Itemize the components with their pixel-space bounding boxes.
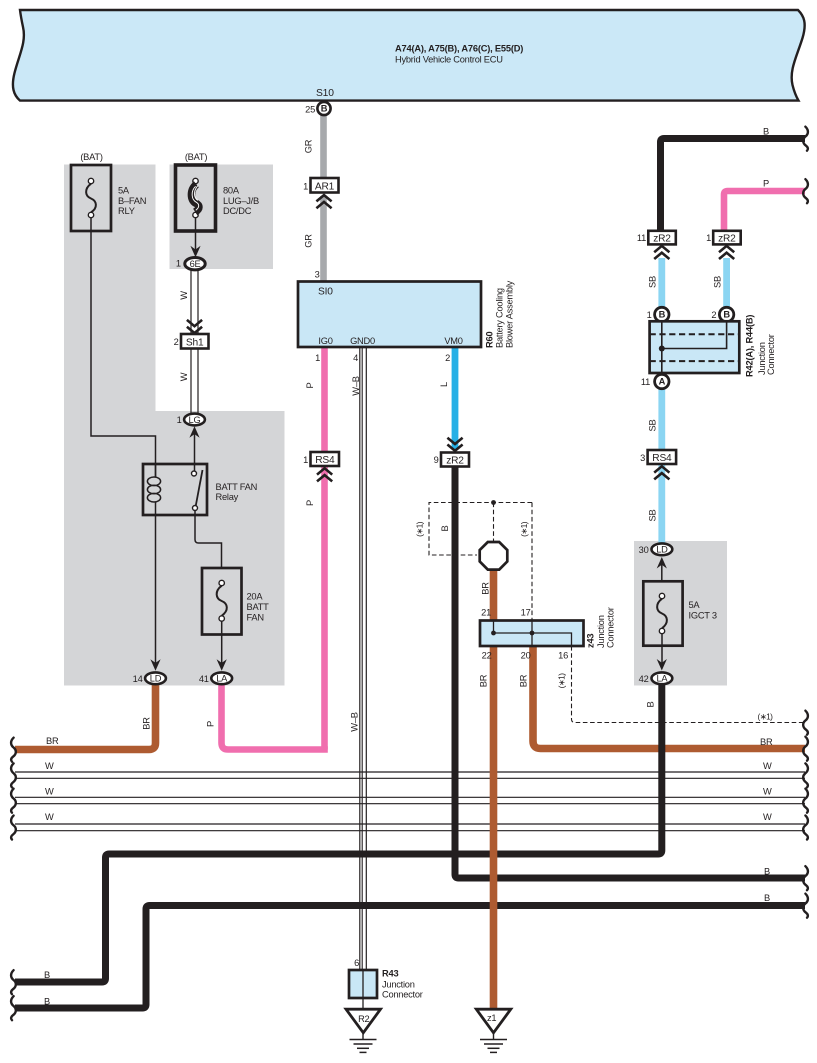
connector chevron above zR2 pin 9 [447,438,462,451]
svg-text:(∗1): (∗1) [758,712,774,722]
svg-text:Relay: Relay [216,492,239,502]
relay switch [192,470,203,511]
svg-text:P: P [763,179,769,189]
svg-text:21: 21 [481,608,491,618]
ground z1 [476,1009,511,1052]
svg-text:BATT: BATT [247,602,270,612]
dashed (*1) box around wire B of zR2 pin 9 [429,503,532,621]
connector LD pin 30 [639,543,673,555]
svg-text:zR2: zR2 [653,234,671,245]
svg-text:3: 3 [640,453,645,463]
shaded fuse block right (IGCT 3) [634,541,727,686]
junction connector z43 [480,621,584,647]
svg-text:Junction: Junction [382,980,415,990]
svg-text:W: W [763,812,772,822]
svg-text:B–FAN: B–FAN [118,196,146,206]
svg-text:P: P [305,500,315,506]
svg-text:IG0: IG0 [318,336,332,346]
connector AR1 pin 1 [303,178,338,193]
svg-text:P: P [305,382,315,388]
connector zR2 pin 11 [637,231,676,245]
svg-text:GR: GR [304,139,314,153]
svg-text:B: B [646,701,656,707]
svg-text:BR: BR [479,674,489,687]
connector zR2 pin 9 [434,453,469,467]
connector LG pin 1 [177,414,205,426]
fuse 80A LUG-J/B DC/DC [176,165,216,231]
wire GR from AR1 to R60 pin 3 [320,196,327,283]
torn wire marks right edge [803,127,808,918]
svg-text:1: 1 [177,415,182,425]
svg-text:1: 1 [315,353,320,363]
svg-text:(BAT): (BAT) [80,152,102,162]
svg-text:W–B: W–B [350,712,360,731]
R60 Battery Cooling Blower Assembly box [298,282,481,348]
svg-text:R2: R2 [358,1014,369,1024]
svg-text:(BAT): (BAT) [185,152,207,162]
svg-text:BR: BR [142,717,152,730]
wire B from zR2 pin 9 down and right to edge [455,466,805,878]
wire W horizontal pair 3 [15,824,805,831]
svg-text:B: B [44,970,50,980]
relay BATT FAN box [143,464,207,515]
svg-text:1: 1 [176,259,181,269]
wire SB from zR2 pin 11 to junction B pin 1 [658,258,665,310]
connector chevron below RS4 [317,468,332,481]
connector LD pin 14 [133,672,166,684]
svg-text:2: 2 [174,337,179,347]
connector chevron below RS4 pin 3 [654,466,669,479]
svg-text:B: B [764,867,770,877]
svg-text:B: B [440,525,450,531]
svg-text:DC/DC: DC/DC [223,206,252,216]
wire B top right from edge to zR2 pin 11 [661,139,806,232]
shaded relay/fuse block left [64,165,285,686]
Hybrid Vehicle Control ECU block A74 [13,10,805,101]
connector RS4 pin 1 [303,452,339,466]
svg-text:W: W [763,761,772,771]
svg-text:B: B [44,997,50,1007]
wire BR from z43 pin 22 to ground z1 [490,646,498,1010]
svg-text:25: 25 [305,105,315,115]
wire W from 6E to Sh1 [191,271,198,335]
wire W horizontal pair 2 [15,797,805,803]
svg-text:A: A [659,377,666,387]
wire W from Sh1 to LG [191,349,198,414]
svg-text:IGCT 3: IGCT 3 [689,611,717,621]
ground R2 [346,1009,381,1052]
svg-text:SB: SB [648,510,658,522]
svg-text:41: 41 [199,674,209,684]
octagon noise filter [480,542,508,570]
svg-text:Connector: Connector [382,990,423,1000]
wire SB from junction A pin 11 to RS4 pin 3 [658,389,665,453]
svg-text:20: 20 [521,651,531,661]
svg-text:LD: LD [150,674,162,684]
svg-text:zR2: zR2 [446,456,464,467]
connector A pin 11 of R42 [641,374,669,388]
svg-text:GR: GR [304,234,314,248]
svg-text:B: B [659,310,666,320]
wire B bottom from left edge up to right edge [15,906,805,1009]
junction connector R42(A) R44(B) [650,321,740,373]
svg-text:1: 1 [303,455,308,465]
connector 6E pin 1 [176,258,205,270]
svg-text:W: W [179,291,189,300]
svg-text:Battery Cooling: Battery Cooling [495,288,505,348]
connector B pin 2 of R42 [711,307,733,321]
svg-text:zR2: zR2 [718,234,736,245]
svg-text:SB: SB [648,420,658,432]
wire BR from relay block LD pin 14 to left edge [15,685,156,750]
svg-text:LA: LA [216,674,228,684]
connector LA pin 41 [199,672,232,684]
svg-text:W: W [763,787,772,797]
wire P from RS4 down [321,463,328,750]
svg-text:BATT FAN: BATT FAN [216,482,258,492]
svg-text:BR: BR [519,674,529,687]
connector Sh1 pin 2 [174,334,209,349]
svg-text:6E: 6E [190,259,201,269]
svg-text:z43: z43 [586,634,596,648]
svg-text:W: W [45,787,54,797]
wire relay to fuse 20A [195,511,222,569]
svg-text:LD: LD [656,545,668,555]
svg-text:6: 6 [354,958,359,968]
svg-text:30: 30 [639,545,649,555]
dashed (*1) wire from z43 pin 16 [572,646,806,723]
connector B pin 1 of R42 [647,307,669,321]
wire L from R60 VM0 pin 2 to zR2 pin 9 [452,347,459,449]
wire SB from RS4 to IGCT LD pin 30 [658,461,665,543]
torn wire marks left edge [11,738,16,1021]
junction connector R43 [349,970,377,1009]
svg-text:LUG–J/B: LUG–J/B [223,196,259,206]
svg-text:GND0: GND0 [350,336,375,346]
svg-text:R42(A), R44(B): R42(A), R44(B) [745,315,755,377]
svg-text:1: 1 [647,310,652,320]
svg-text:B: B [723,310,730,320]
fuse 20A BATT FAN [202,568,242,635]
svg-text:z1: z1 [487,1013,496,1023]
svg-text:(∗1): (∗1) [557,673,567,689]
connector chevron above Sh1 [187,320,202,333]
arrow into LD pin 14 [150,659,160,671]
svg-text:W–B: W–B [351,376,361,395]
svg-text:A74(A), A75(B), A76(C), E55(D): A74(A), A75(B), A76(C), E55(D) [395,44,523,54]
svg-text:(∗1): (∗1) [415,521,425,537]
arrow into LD pin 30 [657,557,667,569]
svg-text:B: B [763,127,769,137]
wire W-B from R60 GND0 pin 4 to R43 [360,347,367,970]
wire BR from octagon to z43 pin 21 [490,568,498,621]
svg-text:RS4: RS4 [652,453,672,464]
wire B from IGCT LA pin 42 down, left and to left edge [15,685,662,982]
svg-text:1: 1 [303,182,308,192]
svg-text:VM0: VM0 [444,336,462,346]
svg-text:2: 2 [445,353,450,363]
arrow into LA pin 42 [661,634,663,663]
svg-text:S10: S10 [316,88,334,99]
svg-text:LA: LA [656,674,668,684]
svg-text:Junction: Junction [596,615,606,648]
svg-text:80A: 80A [223,186,240,196]
svg-text:R60: R60 [485,332,495,348]
svg-text:RLY: RLY [118,206,135,216]
arrow into connector 6E [195,218,197,251]
connector chevron below zR2 pin 11 [654,246,669,259]
wire P from relay block LA pin 41 [222,685,328,750]
wire from fuse 5A to relay coil [91,218,156,478]
wire BR from z43 pin 20 to right edge [533,646,805,749]
svg-text:BR: BR [46,736,59,746]
wire SB from zR2 pin 1 to junction B pin 2 [723,258,730,310]
connector zR2 pin 1 [706,231,741,245]
arrow from relay into LG [189,426,199,438]
svg-text:BR: BR [760,737,773,747]
svg-text:B: B [321,104,328,114]
svg-text:FAN: FAN [247,612,264,622]
svg-text:20A: 20A [247,592,264,602]
svg-text:42: 42 [639,674,649,684]
svg-text:W: W [45,761,54,771]
junction dot on dashed line [491,500,496,505]
svg-text:14: 14 [133,674,143,684]
connector chevron below zR2 pin 1 [719,246,734,259]
svg-text:3: 3 [315,270,320,280]
svg-text:AR1: AR1 [315,181,335,192]
wire GR from ECU S10 pin 25 to AR1 [320,112,327,182]
svg-text:BR: BR [481,582,491,595]
connector LA pin 42 [639,672,673,684]
svg-text:5A: 5A [118,186,130,196]
svg-text:5A: 5A [689,600,701,610]
svg-text:W: W [45,812,54,822]
svg-text:W: W [179,372,189,381]
fuse IGCT 3 [643,581,682,645]
svg-text:Blower Assembly: Blower Assembly [505,280,515,348]
wire P top right from edge to zR2 pin 1 [724,191,805,232]
svg-text:11: 11 [641,377,650,387]
svg-text:R43: R43 [382,969,398,979]
svg-text:Hybrid Vehicle Control ECU: Hybrid Vehicle Control ECU [395,55,503,65]
wire relay coil to LD pin 14 [155,516,157,664]
svg-text:2: 2 [711,310,716,320]
svg-text:Sh1: Sh1 [186,337,204,348]
relay coil [147,464,160,516]
connector chevron below AR1 [316,195,331,208]
svg-text:SI0: SI0 [318,287,333,298]
connector B pin 25 at ECU [305,102,330,115]
wire W horizontal pair 1 [15,772,805,778]
shaded fuse block (80A LUG-J/B) [170,165,274,270]
connector RS4 pin 3 [640,450,676,464]
svg-text:RS4: RS4 [315,455,335,466]
wire fuse 20A to LA pin 41 [221,621,223,663]
svg-text:Connector: Connector [606,607,616,648]
svg-text:1: 1 [706,233,711,243]
svg-text:11: 11 [637,233,646,243]
svg-text:SB: SB [648,276,658,288]
svg-text:Connector: Connector [766,334,776,375]
wire P from R60 IG0 pin 1 to RS4 [321,347,328,455]
svg-text:9: 9 [434,455,439,465]
svg-text:17: 17 [521,608,531,618]
svg-text:P: P [206,721,216,727]
fuse 5A B-FAN RLY [71,165,111,231]
svg-text:(∗1): (∗1) [519,521,529,537]
svg-text:22: 22 [482,651,492,661]
svg-text:L: L [439,382,449,387]
arrow into LA pin 41 [217,659,227,671]
svg-text:B: B [764,893,770,903]
svg-text:16: 16 [558,651,568,661]
svg-text:4: 4 [353,353,358,363]
svg-text:LG: LG [189,415,201,425]
svg-text:SB: SB [713,276,723,288]
